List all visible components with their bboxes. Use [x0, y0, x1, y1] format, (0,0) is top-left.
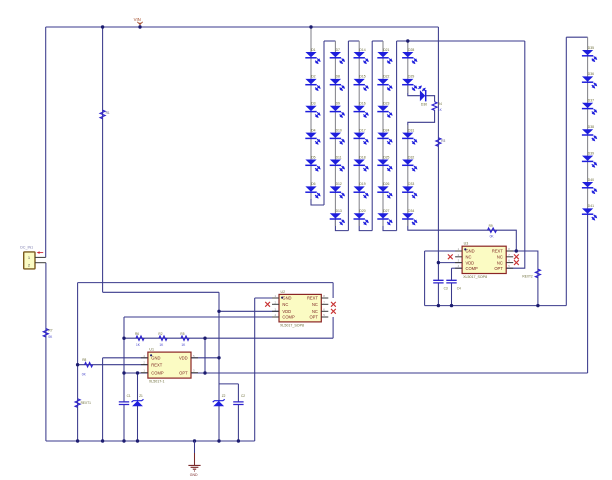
wire serpentine riser 1	[323, 41, 325, 205]
svg-text:XL5017-1: XL5017-1	[149, 380, 165, 384]
wire right column top link	[566, 36, 587, 38]
svg-text:DC_IN1: DC_IN1	[20, 246, 33, 250]
LED D26	[377, 182, 392, 198]
LED D19	[354, 182, 369, 198]
capacitor C4	[446, 280, 461, 290]
wire VDD net vertical x219	[218, 292, 220, 441]
svg-text:D27: D27	[383, 209, 389, 213]
svg-text:D38: D38	[588, 125, 594, 129]
svg-text:0K: 0K	[490, 235, 495, 239]
wire right LED column bottom	[587, 214, 589, 374]
LED D14	[354, 48, 369, 64]
svg-text:D19: D19	[359, 182, 365, 186]
wire R8 row to U1 REXT	[78, 364, 148, 366]
svg-text:XL5017_SOP8: XL5017_SOP8	[463, 275, 487, 279]
junction VIN rail / LED column 1	[309, 25, 312, 28]
pin 2 DC_IN1	[35, 262, 46, 264]
wire right column feed vertical	[565, 37, 567, 305]
wire right LED column	[587, 37, 589, 215]
LED D6	[305, 182, 320, 198]
wire LED column 1	[310, 27, 312, 199]
svg-text:D35: D35	[588, 46, 594, 50]
LED D11	[330, 155, 345, 171]
wire U2 GND vertical	[254, 298, 256, 441]
svg-text:1: 1	[275, 294, 277, 298]
LED D22	[377, 75, 392, 91]
op-amp U2 XL5017_SOP8	[279, 290, 321, 328]
capacitor C1	[119, 394, 131, 405]
svg-text:NC: NC	[282, 302, 288, 307]
wire R1 branch vertical	[102, 27, 104, 292]
svg-text:3: 3	[193, 369, 195, 373]
wire U2 REXT net horizontal	[78, 282, 334, 284]
svg-text:4: 4	[458, 264, 460, 268]
svg-text:D13: D13	[336, 209, 342, 213]
svg-text:R9: R9	[489, 224, 493, 228]
svg-text:OPT: OPT	[179, 370, 188, 375]
resistor R4	[432, 102, 442, 112]
svg-text:2: 2	[143, 361, 145, 365]
svg-text:D36: D36	[588, 72, 594, 76]
junction U3 VDD / C3 net	[437, 261, 440, 264]
svg-text:REXT: REXT	[307, 296, 318, 301]
wire U3 REXT pin link	[506, 250, 516, 252]
no-connect X U3 pin 6	[514, 260, 519, 265]
LED D36	[582, 72, 597, 88]
wire VIN label stub	[139, 23, 141, 28]
svg-text:GND: GND	[151, 356, 160, 361]
LED D41	[582, 204, 597, 220]
svg-text:OPT: OPT	[494, 266, 503, 271]
capacitor C3	[433, 280, 448, 290]
svg-text:D21: D21	[383, 48, 389, 52]
resistor R9	[488, 224, 497, 238]
resistor R6	[135, 332, 144, 347]
ground	[188, 441, 200, 477]
wire serpentine riser 3	[371, 41, 373, 231]
connector DC_IN1	[20, 246, 35, 269]
svg-text:2: 2	[275, 300, 277, 304]
svg-text:R5: R5	[180, 332, 184, 336]
svg-text:D6: D6	[311, 182, 315, 186]
wire U1 GND vertical	[102, 358, 104, 441]
op-amp U1 XL5017	[148, 348, 191, 384]
LED D23	[377, 102, 392, 118]
svg-text:D25: D25	[383, 155, 389, 159]
svg-text:D30: D30	[421, 102, 427, 106]
svg-text:D28: D28	[408, 48, 414, 52]
junction ground rail / C2	[237, 439, 240, 442]
wire U2 COMP row	[124, 316, 279, 318]
LED D12	[330, 182, 345, 198]
LED D39	[582, 151, 597, 167]
svg-text:VDD: VDD	[282, 309, 291, 314]
wire serpentine top link 1	[324, 40, 335, 42]
pins right side U3	[506, 251, 513, 268]
svg-text:D32: D32	[408, 155, 414, 159]
svg-text:C2: C2	[241, 394, 245, 398]
wire column5 bottom to R9	[408, 219, 517, 251]
wire U1 VDD to VDD net	[191, 357, 219, 359]
wire C2 vertical	[237, 384, 239, 441]
wire LED column 2	[334, 41, 336, 226]
junction resistor row / C1 net	[122, 337, 125, 340]
wire C2 branch horizontal	[219, 383, 238, 385]
wire Z1 vertical	[137, 373, 139, 441]
svg-text:2: 2	[458, 253, 460, 257]
junction VDD net / ground rail	[217, 439, 220, 442]
wire column4 bottom jog	[383, 219, 397, 231]
resistor R1	[100, 110, 110, 118]
no-connect X U2 pin 2	[265, 302, 270, 307]
junction U1 OPT / x205	[203, 371, 206, 374]
svg-text:NC: NC	[312, 302, 318, 307]
svg-text:C4: C4	[457, 286, 461, 290]
svg-text:8: 8	[323, 294, 325, 298]
wire U3 COMP to C4	[452, 267, 463, 269]
LED D25	[377, 155, 392, 171]
LED D7	[330, 48, 345, 64]
resistor R2	[158, 332, 167, 347]
no-connect X U3 pin 7	[514, 254, 519, 259]
svg-text:D23: D23	[383, 102, 389, 106]
svg-text:3: 3	[458, 259, 460, 263]
wire serpentine riser 2	[347, 41, 349, 231]
wire U3 VDD row	[438, 262, 462, 264]
junction right rail / C4	[450, 304, 453, 307]
no-connect X U2 pin 6	[331, 309, 336, 314]
svg-text:D9: D9	[336, 102, 340, 106]
wire R4 return to column5	[408, 110, 435, 133]
op-amp U3 XL5017_SOP8	[462, 242, 506, 280]
zener Z1	[132, 394, 144, 406]
junction U3 REXT	[515, 249, 518, 252]
wire VIN top rail	[46, 26, 439, 28]
junction ground rail / C1	[122, 439, 125, 442]
svg-text:Z1: Z1	[139, 394, 143, 398]
LED D10	[330, 128, 345, 144]
LED D1	[305, 48, 320, 64]
svg-text:REXT: REXT	[492, 249, 503, 254]
wire U3 REXT junction to REXT2	[516, 251, 538, 306]
svg-text:5: 5	[323, 313, 325, 317]
junction LED array top / U3 OPT net	[406, 39, 409, 42]
power port VIN	[134, 17, 143, 25]
svg-text:D29: D29	[408, 75, 414, 79]
wire serpentine riser 4	[396, 41, 398, 231]
svg-text:7: 7	[508, 253, 510, 257]
LED D20	[354, 209, 369, 225]
zener Z2	[213, 394, 226, 406]
svg-text:R6: R6	[135, 332, 139, 336]
svg-text:REXT2: REXT2	[522, 275, 533, 279]
no-connect X U2 pin 7	[331, 302, 336, 307]
svg-text:1K: 1K	[136, 343, 141, 347]
wire U2 VDD row	[219, 310, 279, 312]
wire left vertical to DC_IN pin 1	[45, 27, 47, 257]
svg-text:D34: D34	[408, 209, 414, 213]
svg-text:C1: C1	[127, 394, 131, 398]
pins left side U2	[272, 298, 279, 317]
svg-text:D24: D24	[383, 128, 389, 132]
svg-text:C3: C3	[444, 286, 448, 290]
wire C4 vertical	[451, 268, 453, 305]
wire serpentine top link 3	[372, 40, 383, 42]
svg-text:D7: D7	[336, 48, 340, 52]
svg-text:D2: D2	[311, 75, 315, 79]
svg-text:0K: 0K	[48, 335, 53, 339]
svg-text:COMP: COMP	[151, 370, 164, 375]
svg-text:D26: D26	[383, 182, 389, 186]
svg-text:D20: D20	[359, 209, 365, 213]
junction VIN label	[138, 25, 141, 28]
LED D15	[354, 75, 369, 91]
svg-text:U1: U1	[149, 348, 154, 352]
pins right side U1	[191, 358, 198, 373]
svg-text:1K: 1K	[159, 343, 164, 347]
wire OPT link vertical x205	[204, 338, 206, 373]
resistor R5	[180, 332, 189, 347]
svg-text:VIN: VIN	[134, 17, 141, 22]
svg-text:R2: R2	[158, 332, 162, 336]
junction U1 COMP / C1 net	[122, 371, 125, 374]
wire LED column 3	[358, 41, 360, 226]
svg-text:4: 4	[143, 354, 145, 358]
svg-text:D1: D1	[311, 48, 315, 52]
LED D4	[305, 128, 320, 144]
junction U1 COMP / Z1	[136, 371, 139, 374]
junction ground rail / U1 GND	[101, 439, 104, 442]
svg-text:D39: D39	[588, 151, 594, 155]
LED D16	[354, 102, 369, 118]
svg-text:U3: U3	[464, 242, 469, 246]
junction right rail / REXT2	[536, 304, 539, 307]
wire R1 branch horizontal	[103, 291, 219, 293]
wire U2 REXT pin drop	[332, 283, 334, 298]
wire U3 GND vertical	[424, 251, 426, 306]
junction VDD net / U2 VDD	[217, 310, 220, 313]
wire feedback resistor row	[124, 337, 333, 339]
resistor R7	[43, 329, 53, 339]
svg-text:R3: R3	[441, 139, 445, 143]
svg-text:3: 3	[275, 307, 277, 311]
no-connect X U3 pin 2	[448, 254, 453, 259]
wire right section ground rail	[425, 305, 567, 307]
wire U1 GND horizontal	[103, 357, 148, 359]
LED D30	[419, 86, 428, 106]
svg-text:COMP: COMP	[466, 266, 479, 271]
svg-text:REXT1: REXT1	[81, 401, 92, 405]
wire C1 net vertical	[123, 317, 125, 441]
svg-text:VDD: VDD	[179, 356, 188, 361]
pins left side U3	[455, 251, 462, 268]
LED D38	[582, 125, 597, 141]
wire LED array top to U3 OPT	[408, 40, 525, 42]
wire U3 GND horizontal	[425, 250, 463, 252]
LED D24	[377, 128, 392, 144]
svg-text:NC: NC	[497, 260, 503, 265]
capacitor C2	[233, 394, 245, 405]
pins right side U2	[321, 298, 328, 317]
svg-text:1: 1	[143, 369, 145, 373]
junction VIN rail / R1	[101, 25, 104, 28]
wire bottom ground rail	[46, 440, 255, 442]
svg-text:R8: R8	[82, 358, 86, 362]
svg-text:D16: D16	[359, 102, 365, 106]
svg-text:OPT: OPT	[309, 315, 318, 320]
svg-text:NC: NC	[497, 255, 503, 260]
svg-text:D33: D33	[408, 182, 414, 186]
wire U2 GND horizontal	[255, 297, 279, 299]
wire column1 bottom jog	[311, 192, 324, 205]
wire column5 jog to D30	[408, 85, 420, 96]
svg-text:D22: D22	[383, 75, 389, 79]
svg-text:1: 1	[458, 247, 460, 251]
svg-text:GND: GND	[190, 473, 198, 477]
wire REXT1 vertical	[77, 365, 79, 441]
svg-text:R7: R7	[48, 329, 52, 333]
LED D21	[377, 48, 392, 64]
LED D13	[330, 209, 345, 225]
LED D27	[377, 209, 392, 225]
svg-text:D37: D37	[588, 99, 594, 103]
svg-text:8: 8	[508, 247, 510, 251]
resistor R8	[82, 358, 93, 376]
svg-text:R4: R4	[438, 102, 442, 106]
wire U1 OPT long net	[191, 372, 588, 374]
LED D32	[402, 155, 417, 171]
junction ground rail / REXT1	[76, 439, 79, 442]
svg-text:1K: 1K	[181, 343, 186, 347]
svg-text:5: 5	[508, 264, 510, 268]
resistor R3	[436, 138, 446, 147]
svg-text:0K: 0K	[82, 372, 87, 376]
junction VDD net / U1 VDD	[217, 356, 220, 359]
wire serpentine top link 4	[397, 40, 408, 42]
LED D33	[402, 182, 417, 198]
wire U3 OPT to LED array	[506, 41, 525, 268]
svg-text:D41: D41	[588, 204, 594, 208]
junction ground rail / Z1	[136, 439, 139, 442]
svg-text:VDD: VDD	[466, 260, 475, 265]
junction REXT1 / R8	[76, 363, 79, 366]
svg-text:GND: GND	[282, 296, 291, 301]
svg-text:D5: D5	[311, 155, 315, 159]
svg-text:GND: GND	[466, 249, 475, 254]
LED D9	[330, 102, 345, 118]
svg-text:6: 6	[323, 307, 325, 311]
wire C3 R3 net vertical	[437, 27, 439, 306]
svg-text:D3: D3	[311, 102, 315, 106]
LED D3	[305, 102, 320, 118]
wire column2 bottom jog	[335, 219, 348, 231]
LED D37	[582, 99, 597, 115]
wire serpentine top link 2	[348, 40, 359, 42]
svg-text:R1: R1	[106, 111, 110, 115]
svg-text:D4: D4	[311, 128, 315, 132]
wire U2 OPT drop	[332, 317, 334, 338]
pin 1 DC_IN1	[35, 256, 46, 258]
junction resistor row / x205	[203, 337, 206, 340]
LED D5	[305, 155, 320, 171]
svg-text:4: 4	[275, 313, 277, 317]
LED D18	[354, 155, 369, 171]
svg-text:D14: D14	[359, 48, 365, 52]
wire U2 REXT net left drop	[77, 283, 79, 365]
LED D29	[402, 75, 417, 91]
wire DC_IN pin 2 down to ground rail	[45, 263, 47, 441]
svg-text:D31: D31	[408, 128, 414, 132]
svg-text:1K: 1K	[438, 108, 443, 112]
LED D34	[402, 209, 417, 225]
LED D17	[354, 128, 369, 144]
svg-text:5: 5	[193, 354, 195, 358]
svg-text:D11: D11	[336, 155, 342, 159]
arrow input marker DC_IN1	[39, 252, 44, 254]
junction ground rail / GND symbol	[193, 439, 196, 442]
LED D2	[305, 75, 320, 91]
svg-text:Z2: Z2	[222, 394, 226, 398]
svg-text:D18: D18	[359, 155, 365, 159]
svg-text:NC: NC	[312, 309, 318, 314]
svg-text:D17: D17	[359, 128, 365, 132]
pins left side U1	[141, 358, 148, 373]
svg-text:7: 7	[323, 300, 325, 304]
wire D30 to R4	[426, 96, 434, 102]
svg-text:REXT: REXT	[151, 362, 162, 367]
LED D8	[330, 75, 345, 91]
wire LED column 4	[382, 41, 384, 226]
svg-text:U2: U2	[281, 290, 286, 294]
LED D31	[402, 128, 417, 144]
svg-text:COMP: COMP	[282, 315, 295, 320]
svg-text:D8: D8	[336, 75, 340, 79]
wire U1 COMP row	[124, 372, 148, 374]
svg-text:6: 6	[508, 259, 510, 263]
wire column3 bottom jog	[359, 219, 372, 231]
svg-text:XL5017_SOP8: XL5017_SOP8	[280, 324, 304, 328]
svg-text:D40: D40	[588, 178, 594, 182]
resistor REXT2	[522, 269, 540, 278]
LED D40	[582, 178, 597, 194]
wire LED column 5 upper	[407, 41, 409, 93]
LED D28	[402, 48, 417, 64]
svg-text:NC: NC	[466, 255, 472, 260]
svg-text:D10: D10	[336, 128, 342, 132]
junction right rail / C3	[437, 304, 440, 307]
svg-text:D15: D15	[359, 75, 365, 79]
LED D35	[582, 46, 597, 62]
resistor REXT1	[75, 399, 91, 408]
svg-text:D12: D12	[336, 182, 342, 186]
wire LED column 5 lower	[407, 125, 409, 226]
